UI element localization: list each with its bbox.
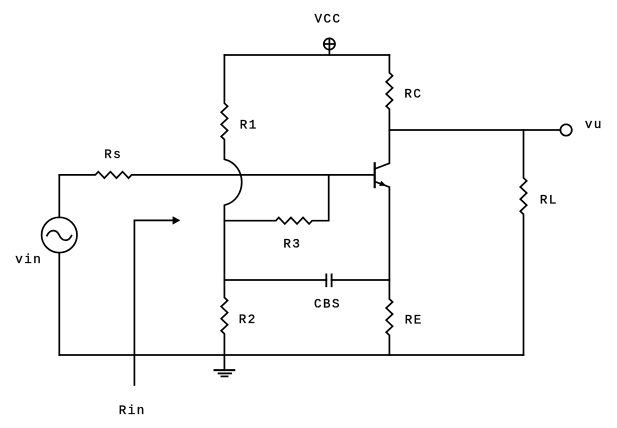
svg-text:CBS: CBS bbox=[314, 297, 341, 311]
svg-text:Rs: Rs bbox=[104, 148, 122, 162]
svg-text:vin: vin bbox=[15, 253, 42, 267]
svg-text:R2: R2 bbox=[239, 313, 257, 327]
svg-text:R1: R1 bbox=[240, 119, 258, 133]
svg-text:R3: R3 bbox=[283, 238, 301, 252]
svg-text:vu: vu bbox=[585, 118, 603, 132]
svg-text:RE: RE bbox=[405, 314, 423, 328]
svg-text:RC: RC bbox=[404, 88, 422, 102]
svg-text:Rin: Rin bbox=[119, 404, 146, 418]
svg-text:RL: RL bbox=[540, 193, 558, 207]
svg-text:VCC: VCC bbox=[315, 12, 342, 26]
